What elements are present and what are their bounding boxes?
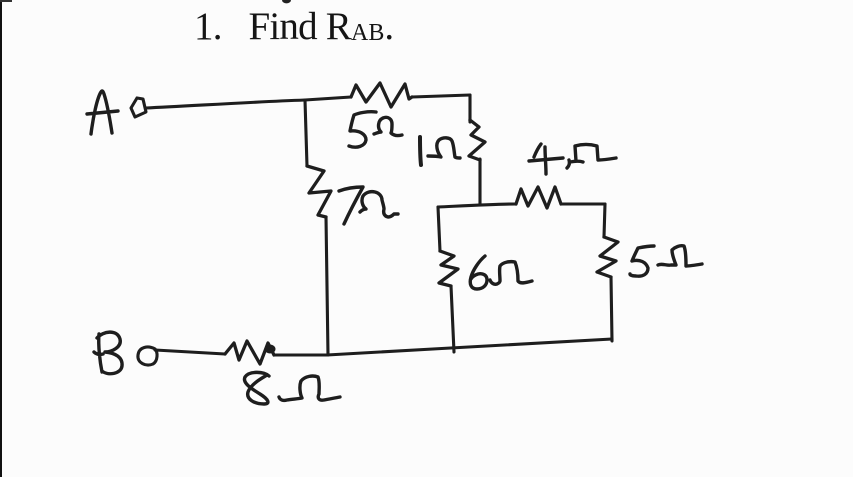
label 1 ohm: omega: [428, 138, 460, 158]
wire: 1-ohm down to middle node: [478, 159, 481, 205]
resistor 6 ohm (vertical): [439, 251, 458, 286]
label 7 ohm: omega: [360, 192, 398, 217]
node B label letter: [94, 332, 122, 374]
wire: 7-ohm branch upper: [305, 100, 307, 166]
resistor 8 ohm (bottom horizontal): [225, 341, 274, 364]
wire: right 5-ohm branch lower: [611, 277, 612, 341]
label 5 ohm top: digit 5: [349, 112, 376, 147]
wire: junction to 5-ohm resistor: [305, 97, 351, 100]
resistor 5 ohm (right vertical): [597, 237, 618, 277]
label 6 ohm: digit 6: [470, 256, 487, 289]
label right 5 ohm: digit 5: [630, 246, 654, 276]
label 6 ohm: omega: [490, 262, 532, 285]
label 7 ohm: digit 7: [339, 187, 363, 224]
resistor 5 ohm (top horizontal): [351, 83, 412, 107]
label 8 ohm: digit 8: [244, 372, 269, 404]
node A label letter: [87, 91, 118, 134]
wire: 6-ohm branch lower: [451, 286, 454, 352]
wire: top-right corner down to 1-ohm resistor: [468, 95, 471, 122]
label 1 ohm: digit 1: [420, 137, 421, 165]
wire: 5-ohm to top-right corner: [412, 95, 470, 97]
resistor 4 ohm (middle horizontal): [516, 187, 561, 208]
wire: A to top-left junction: [146, 100, 305, 108]
wire: B to 8-ohm resistor: [155, 350, 225, 354]
title: problem statement: [194, 4, 393, 49]
label 8 ohm: omega: [279, 376, 340, 400]
scan edge artifact: left border line: [0, 0, 2, 477]
terminal B: [138, 347, 157, 365]
wire: middle horizontal right segment: [561, 202, 605, 205]
label right 5 ohm: omega: [658, 246, 702, 266]
wire: 8-ohm to 7-ohm junction: [274, 353, 327, 356]
label 5 ohm top: omega: [374, 117, 402, 135]
blob on 8-ohm resistor last peak: [265, 345, 276, 354]
terminal A: [131, 98, 146, 117]
resistor 7 ohm (vertical): [307, 166, 331, 217]
wire: middle horizontal left segment: [438, 204, 516, 207]
wire: 6-ohm branch upper: [438, 207, 440, 251]
resistor 1 ohm (vertical): [469, 120, 485, 160]
label 4 ohm: omega: [567, 145, 616, 169]
scan artifact: top-left tick: [0, 0, 12, 2]
label 4 ohm: digit 4: [529, 144, 563, 174]
wire: right 5-ohm branch upper: [604, 204, 605, 237]
wire: bottom long segment to right: [327, 339, 612, 355]
scan artifact: stray ink blob top: [282, 0, 291, 3]
wire: 7-ohm branch lower: [326, 217, 328, 355]
